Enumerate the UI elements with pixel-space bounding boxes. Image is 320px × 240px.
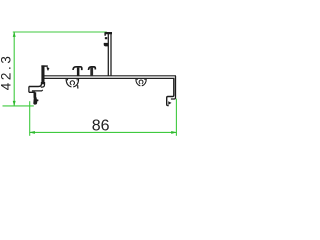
glazing tab stem right line bbox=[110, 33, 112, 76]
dimension line 42.3 bbox=[13, 32, 15, 106]
top extension line bbox=[13, 31, 107, 33]
left wall cap bbox=[41, 65, 47, 67]
bottom-left shelf top with wall corner bbox=[29, 82, 42, 87]
bottom-left hook left edge bbox=[28, 86, 30, 92]
right extension line 86 bbox=[175, 99, 177, 136]
screw channel right outer left wall bbox=[136, 79, 140, 86]
bottom-left hook bottom bbox=[29, 91, 35, 93]
T-hook 1 stem bbox=[77, 68, 80, 77]
right wall inner line and foot arm bbox=[167, 78, 174, 105]
top rail lower line bbox=[44, 77, 175, 79]
bottom-left neck bbox=[34, 92, 37, 98]
arrow right bbox=[171, 131, 177, 134]
svg-text:86: 86 bbox=[92, 118, 110, 135]
top rail upper line bbox=[44, 75, 177, 77]
bottom-left foot bbox=[33, 97, 38, 104]
bottom-left shelf inner bbox=[32, 90, 43, 91]
tab clip upper nub bbox=[105, 37, 107, 39]
arrow down bbox=[13, 101, 16, 107]
right foot barb bbox=[168, 101, 171, 105]
screw channel left outer right wall bbox=[73, 79, 78, 87]
T-hook 1 cap bbox=[73, 67, 82, 70]
dimension line 86 bbox=[30, 131, 177, 133]
arrow up bbox=[13, 31, 16, 37]
arrow left bbox=[29, 131, 35, 134]
left extension line 86 bbox=[29, 101, 31, 136]
screw channel left inner leg stubs bbox=[68, 79, 78, 81]
bottom-left shelf inner corner bbox=[41, 82, 45, 87]
tab clip lower nub bbox=[104, 43, 109, 47]
screw channel left tail bbox=[77, 85, 79, 88]
bottom-left extension line bbox=[3, 105, 34, 107]
T-hook 2 cap bbox=[89, 67, 96, 70]
gasket claw under cap bbox=[47, 67, 50, 71]
T-hook 2 stem bbox=[90, 68, 93, 77]
svg-text:42.3: 42.3 bbox=[0, 54, 14, 91]
screw channel right inner leg stubs bbox=[137, 79, 145, 80]
tab cap bbox=[104, 32, 112, 36]
glazing tab stem left line bbox=[107, 33, 109, 76]
screw channel left outer left wall bbox=[66, 79, 71, 87]
screw channel left inner ring bbox=[70, 81, 74, 85]
right wall outer line and lower arm bbox=[171, 76, 176, 99]
screw channel right inner ring bbox=[139, 80, 143, 84]
screw channel right outer right wall bbox=[142, 79, 146, 86]
left wall bbox=[41, 65, 44, 84]
